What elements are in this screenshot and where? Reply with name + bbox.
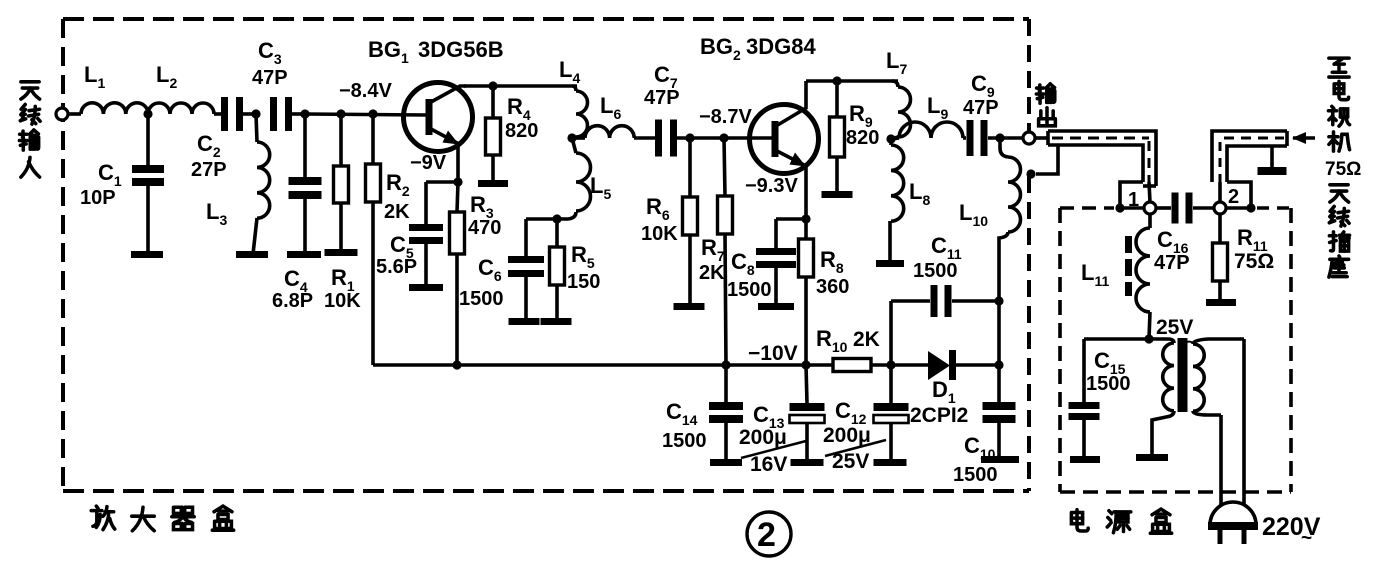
transistor BG1 collector line bbox=[431, 86, 466, 102]
wire C3 to node bbox=[290, 112, 305, 116]
wire BG1 collector top line bbox=[464, 84, 577, 88]
node: junction C9/L10/output bbox=[995, 133, 1004, 142]
node: junction L1/L2/C1 bbox=[143, 109, 152, 118]
wire input terminal to L1 bbox=[68, 112, 81, 116]
wire output terminal into coax bbox=[1035, 136, 1049, 140]
inductor L11 (stem + coil + wire down) bbox=[1148, 214, 1152, 228]
capacitor C10 (stem, plates, ground) bbox=[997, 365, 1001, 402]
wire L2 to C2 bbox=[214, 112, 222, 116]
wire C6 to ground bbox=[524, 277, 528, 319]
wire output arrow line bbox=[1293, 136, 1315, 140]
coax cable 1 outer shield bbox=[1048, 131, 1156, 186]
capacitor C13 electrolytic (stem, plates, ground) bbox=[806, 365, 807, 403]
wire coax2 shield stub to box bbox=[1227, 182, 1251, 204]
wire C4 to ground bbox=[303, 199, 307, 254]
wire power box top node row bbox=[1120, 206, 1144, 210]
svg-text:−8.4V: −8.4V bbox=[339, 80, 392, 102]
inductor L4 (top curve + coil) bbox=[572, 86, 576, 91]
ground (R5) bbox=[541, 318, 572, 325]
svg-text:27P: 27P bbox=[191, 159, 227, 181]
svg-text:47P: 47P bbox=[644, 87, 680, 109]
wire R2 down to feedback rail bbox=[371, 202, 375, 365]
inductor L7 (top curve + coil) bbox=[892, 81, 898, 87]
node: junction C2/C3/L3 bbox=[251, 109, 260, 118]
resistor R1 bbox=[334, 166, 349, 203]
wire R1 stem bbox=[339, 114, 343, 166]
slash (C12 value) bbox=[825, 440, 886, 456]
coax cable 2 outer shield bbox=[1212, 131, 1287, 182]
resistor R7 bbox=[718, 196, 733, 234]
ground (L3) bbox=[236, 251, 268, 258]
capacitor C15 plates bbox=[1069, 402, 1100, 409]
node: junction R8/C13/rail bbox=[801, 360, 810, 369]
svg-text:1500: 1500 bbox=[953, 464, 998, 486]
dashed enclosure: power box bottom edge bbox=[1060, 490, 1291, 494]
wire C2 to node bbox=[241, 112, 256, 116]
wire R3 down to feedback rail bbox=[455, 254, 459, 365]
transistor BG2 collector line bbox=[776, 81, 806, 126]
svg-text:3DG56B: 3DG56B bbox=[418, 37, 504, 62]
wire L9 to C9 bbox=[963, 136, 966, 140]
svg-text:1500: 1500 bbox=[1086, 373, 1131, 395]
label 至电视机75Ω天线插座, vertical bbox=[1329, 58, 1349, 77]
wire secondary bottom down to plug bbox=[1219, 415, 1223, 505]
node: junction R7/C14/rail bbox=[721, 360, 730, 369]
dashed enclosure: power box right edge bbox=[1289, 208, 1293, 492]
dashed enclosure: power box left edge bbox=[1058, 208, 1062, 492]
node: junction R6 bbox=[685, 133, 694, 142]
wire D1 to node bbox=[956, 363, 999, 367]
wire R9 to ground bbox=[835, 157, 839, 192]
wire node to L6 bbox=[572, 136, 585, 140]
resistor R8 bbox=[799, 239, 814, 277]
node: junction D1/C10 bbox=[994, 360, 1003, 369]
svg-text:2K: 2K bbox=[384, 201, 410, 223]
node: shield stub on power box border bbox=[1115, 203, 1124, 212]
wire secondary top down to plug bbox=[1242, 339, 1246, 505]
wire R11 to ground bbox=[1218, 281, 1222, 300]
ground (C4) bbox=[287, 251, 321, 258]
wire BG2 emitter down bbox=[804, 166, 808, 219]
svg-text:−9.3V: −9.3V bbox=[745, 175, 798, 197]
svg-text:200μ: 200μ bbox=[739, 426, 787, 449]
ground (L8) bbox=[876, 260, 904, 267]
node: junction R4 on collector line bbox=[488, 81, 497, 90]
wire R7 down to feedback rail bbox=[725, 234, 726, 365]
wire L10/C11 node down to diode rail bbox=[997, 301, 1001, 365]
wire C4 stem bbox=[303, 114, 307, 177]
svg-text:1500: 1500 bbox=[459, 288, 504, 310]
dashed enclosure: amplifier box right edge (upper part) bbox=[1027, 19, 1031, 131]
node: junction C3/C4 bbox=[300, 109, 309, 118]
ground (C12) bbox=[874, 459, 907, 466]
svg-text:2K: 2K bbox=[699, 262, 725, 284]
figure number ② (circled 2) bbox=[747, 512, 791, 556]
svg-text:75Ω: 75Ω bbox=[1234, 250, 1274, 273]
ground (R9) bbox=[822, 191, 853, 198]
inductor L8 (coil + wire to ground) bbox=[889, 139, 893, 145]
capacitor C2 (series) bbox=[221, 97, 228, 131]
inductor L10 (curve + coil + wire down) bbox=[1000, 138, 1008, 157]
wire R5 stem bbox=[555, 219, 559, 247]
wire feedback rail (-10V) bbox=[373, 363, 833, 367]
resistor R4 bbox=[486, 118, 501, 155]
mains plug (dome + bar + prongs) bbox=[1210, 502, 1256, 525]
wire L4 bottom to node bbox=[572, 136, 576, 138]
svg-text:−10V: −10V bbox=[748, 342, 798, 365]
transformer T core bars bbox=[1178, 338, 1188, 412]
node 2 (terminal circle) bbox=[1214, 202, 1226, 214]
capacitor C3 (series) bbox=[270, 97, 277, 131]
wire C8 horizontal bbox=[776, 217, 806, 221]
transformer T secondary (coil right of core) bbox=[1193, 339, 1244, 344]
wire coax2 shield right stub to chassis bbox=[1270, 146, 1274, 168]
wire coax1 shield bottom stub bbox=[1120, 182, 1143, 204]
node: BG1 emitter junction bbox=[453, 177, 462, 186]
label 天线输入 (antenna input), vertical bbox=[21, 82, 40, 99]
wire R6 to ground bbox=[688, 235, 692, 304]
wire R10 to diode node bbox=[871, 363, 928, 367]
dashed enclosure: amplifier box right edge (lower part) bbox=[1027, 176, 1031, 491]
wire L6 to C7 bbox=[634, 136, 655, 140]
dashed enclosure: amplifier box bottom edge bbox=[63, 489, 1029, 493]
label 输出 (output), vertical bbox=[1036, 84, 1054, 103]
resistor R5 bbox=[550, 247, 565, 285]
svg-text:25V: 25V bbox=[832, 450, 869, 473]
svg-text:1500: 1500 bbox=[662, 430, 707, 452]
output terminal (open circle on box border) bbox=[1023, 132, 1035, 144]
wire coax1 inner to node 1 bbox=[1149, 182, 1150, 202]
svg-text:5.6P: 5.6P bbox=[376, 256, 417, 278]
input terminal (open circle on box border) bbox=[56, 108, 68, 120]
svg-text:150: 150 bbox=[567, 271, 600, 293]
wire R8 down to feedback rail bbox=[804, 277, 808, 365]
svg-text:360: 360 bbox=[816, 276, 849, 298]
node: junction L5/C6/R5 bbox=[552, 214, 561, 223]
inductor L5 (coil + bottom curve) bbox=[572, 138, 576, 153]
wire R7 stem bbox=[724, 138, 725, 196]
wire BG1 emitter down bbox=[456, 143, 460, 182]
svg-text:1: 1 bbox=[1128, 189, 1139, 211]
transistor BG1 emitter line with arrow bbox=[431, 129, 459, 144]
transistor BG1 base bar bbox=[426, 99, 433, 135]
transistor BG1 circle bbox=[404, 83, 473, 152]
ground (C13) bbox=[791, 459, 824, 466]
resistor R3 bbox=[450, 212, 465, 254]
wire C9 to output terminal bbox=[988, 136, 1023, 140]
inductor L2 bbox=[148, 103, 214, 114]
wire C8 to ground bbox=[774, 268, 778, 304]
wire C6 stem bbox=[524, 219, 528, 256]
wire C5 horizontal bbox=[426, 180, 458, 184]
ground (R11) bbox=[1206, 299, 1236, 306]
node: junction C11/L10 bbox=[994, 296, 1003, 305]
wire C5 stem bbox=[424, 182, 428, 224]
capacitor C14 (stem, plates, ground) bbox=[724, 365, 728, 402]
dashed enclosure: amplifier box (放大器盒) top edge bbox=[63, 17, 1029, 21]
label 放大器盒 (amplifier box) bbox=[91, 506, 115, 530]
wire C8 stem bbox=[774, 219, 778, 248]
svg-text:~: ~ bbox=[1301, 528, 1312, 549]
svg-text:2K: 2K bbox=[853, 328, 880, 351]
svg-text:47P: 47P bbox=[963, 97, 999, 119]
svg-text:470: 470 bbox=[468, 217, 501, 239]
resistor R9 bbox=[830, 117, 845, 157]
node: BG2 emitter junction bbox=[801, 214, 810, 223]
capacitor C6 plates bbox=[508, 256, 544, 263]
svg-text:10P: 10P bbox=[80, 187, 116, 209]
svg-text:47P: 47P bbox=[252, 67, 288, 89]
ground (C14) bbox=[710, 459, 742, 466]
wire R5 to ground bbox=[555, 285, 559, 319]
node: junction R7 bbox=[719, 133, 728, 142]
coax cable 1 inner conductor (dashed) bbox=[1052, 137, 1149, 140]
svg-text:−9V: −9V bbox=[410, 152, 447, 174]
ground (C6) bbox=[509, 318, 540, 325]
inductor L1 bbox=[81, 103, 148, 114]
wire C6 horizontal bbox=[526, 217, 557, 221]
capacitor C5 plates bbox=[409, 224, 443, 231]
ground (C10) bbox=[981, 456, 1019, 463]
ground (R1) bbox=[325, 249, 358, 256]
svg-text:2: 2 bbox=[1228, 186, 1239, 208]
wire C1 stem bbox=[146, 114, 150, 165]
svg-text:200μ: 200μ bbox=[823, 424, 871, 447]
wire C15 to ground bbox=[1082, 420, 1086, 457]
inductor L9 bbox=[891, 138, 899, 139]
svg-text:−8.7V: −8.7V bbox=[699, 106, 752, 128]
svg-text:1500: 1500 bbox=[727, 279, 772, 301]
node: junction R3/rail bbox=[452, 360, 461, 369]
capacitor C9 (series) bbox=[967, 120, 974, 156]
resistor R6 bbox=[683, 197, 698, 235]
capacitor C12 electrolytic (stem, plates, ground) bbox=[889, 365, 893, 403]
ground (transformer primary) bbox=[1136, 454, 1168, 461]
capacitor C8 plates bbox=[756, 248, 796, 255]
resistor R2 bbox=[366, 164, 381, 202]
node: shield/box junction bbox=[1026, 169, 1035, 178]
transistor BG2 circle bbox=[750, 105, 819, 174]
resistor R10 (horizontal) bbox=[833, 359, 871, 372]
wire coax2 inner to node 2 bbox=[1218, 182, 1222, 202]
wire C5 to ground bbox=[424, 244, 428, 285]
wire R3 stem bbox=[457, 182, 458, 212]
diode D1 2CP12 bbox=[928, 351, 950, 380]
wire BG2 collector top line bbox=[806, 79, 898, 83]
arrowhead (to TV socket) bbox=[1292, 132, 1306, 144]
label 电源盒 (power box) bbox=[1071, 510, 1088, 531]
node: junction R2 bbox=[368, 109, 377, 118]
wire C1 to ground bbox=[146, 186, 150, 254]
svg-text:2CPI2: 2CPI2 bbox=[910, 404, 968, 427]
capacitor C1 plates bbox=[132, 165, 164, 173]
wire C11 left down to rail bbox=[889, 301, 893, 365]
transistor BG2 base bar bbox=[772, 121, 779, 157]
transistor BG2 emitter line with arrow bbox=[777, 151, 806, 166]
chassis ground (coax2 shield) bbox=[1258, 167, 1287, 175]
node: junction coax2 shield on border bbox=[1246, 203, 1255, 212]
wire R4 stem bbox=[491, 86, 495, 118]
capacitor C16 (series) bbox=[1172, 193, 1179, 224]
ground (C1) bbox=[131, 251, 163, 258]
node: junction R9 on collector line bbox=[832, 76, 841, 85]
svg-text:820: 820 bbox=[846, 127, 879, 149]
node: junction R1 bbox=[336, 109, 345, 118]
svg-text:6.8P: 6.8P bbox=[272, 290, 313, 312]
wire C15 stem bbox=[1082, 339, 1086, 402]
svg-text:2: 2 bbox=[757, 516, 776, 554]
ground (C5) bbox=[409, 284, 443, 291]
wire R1 to ground bbox=[339, 203, 343, 252]
wire C7 to BG2 base bbox=[676, 136, 774, 140]
dashed enclosure: power box (电源盒) top edge left part bbox=[1060, 206, 1114, 210]
node: junction R10/C12/C11 bbox=[886, 360, 895, 369]
dashed enclosure: amplifier box left edge bbox=[61, 19, 65, 491]
svg-text:10K: 10K bbox=[324, 290, 361, 312]
wire R9 stem bbox=[835, 81, 839, 117]
svg-text:820: 820 bbox=[505, 120, 538, 142]
capacitor C4 plates bbox=[289, 177, 322, 185]
node: junction L4/L5/L6 bbox=[567, 133, 576, 142]
node: junction L7/L8/L9 bbox=[886, 134, 895, 143]
svg-text:10K: 10K bbox=[641, 223, 678, 245]
svg-text:3DG84: 3DG84 bbox=[746, 34, 816, 59]
wire R11 stem bbox=[1218, 214, 1222, 243]
wire coax1 shield stub to box bbox=[1036, 145, 1058, 174]
ground (R6) bbox=[674, 303, 705, 310]
wire R8 stem bbox=[804, 219, 808, 239]
capacitor C11 (series, horizontal wire) bbox=[891, 299, 930, 303]
svg-text:16V: 16V bbox=[750, 453, 787, 476]
wire L7 bottom to node bbox=[891, 137, 898, 139]
ground (C15) bbox=[1070, 456, 1100, 463]
dashed enclosure: power box top edge right part bbox=[1257, 206, 1291, 210]
wire R4 to ground bbox=[491, 155, 495, 181]
transformer T primary (coil left of core) bbox=[1149, 339, 1174, 343]
coax cable 2 inner conductor (dashed) bbox=[1224, 137, 1284, 140]
wire R6 stem bbox=[688, 138, 692, 197]
capacitor C7 (series) bbox=[655, 120, 662, 157]
wire R2 stem bbox=[371, 114, 375, 164]
resistor R11 bbox=[1213, 243, 1228, 281]
inductor L11 core bars bbox=[1125, 236, 1132, 253]
ground (R4) bbox=[478, 180, 508, 187]
node 1 (terminal circle) bbox=[1144, 202, 1156, 214]
wire C15 horizontal bbox=[1084, 337, 1149, 341]
svg-text:47P: 47P bbox=[1154, 252, 1190, 274]
inductor L6 bbox=[585, 126, 634, 138]
svg-text:75Ω: 75Ω bbox=[1325, 159, 1361, 180]
svg-text:1500: 1500 bbox=[913, 260, 958, 282]
node: junction L11/C15/transformer bbox=[1144, 334, 1153, 343]
slash (C13 value) bbox=[741, 441, 806, 458]
inductor L3 (wire, coil, wire) bbox=[256, 114, 257, 142]
ground (C8) bbox=[758, 303, 794, 310]
wire main line C4 to BG1 base bbox=[305, 114, 427, 115]
